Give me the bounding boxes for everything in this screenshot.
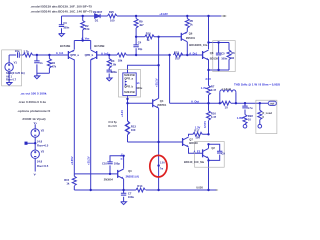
svg-text:R15: R15 <box>64 178 69 182</box>
svg-text:C11 5p: C11 5p <box>108 120 117 124</box>
svg-text:R10: R10 <box>146 32 151 36</box>
svg-text:R16: R16 <box>211 112 216 116</box>
resistor R13 vbe chain <box>126 121 130 135</box>
svg-text:Q7: Q7 <box>189 138 193 142</box>
wire input mid <box>9 54 68 56</box>
svg-text:A_In1: A_In1 <box>56 51 64 55</box>
svg-text:4.7u: 4.7u <box>247 106 253 110</box>
wire emitter res to out <box>208 95 210 148</box>
svg-text:100: 100 <box>195 136 200 140</box>
svg-text:2N5551: 2N5551 <box>157 103 167 107</box>
svg-text:+3.4V: +3.4V <box>120 110 124 117</box>
svg-text:R3: R3 <box>111 59 115 63</box>
svg-text:V2: V2 <box>41 128 45 132</box>
svg-text:.ac oct 100 5 100k: .ac oct 100 5 100k <box>20 91 46 95</box>
svg-text:Q3: Q3 <box>128 169 132 173</box>
wire VAS base <box>128 102 153 104</box>
transistor QPR_b LTP right <box>91 50 97 60</box>
svg-text:100: 100 <box>110 18 115 22</box>
svg-text:D1: D1 <box>95 18 99 22</box>
arrow bottom rail end <box>216 189 219 191</box>
wire VAS load chain <box>135 16 137 55</box>
svg-text:4k7: 4k7 <box>139 23 144 27</box>
svg-text:680u: 680u <box>111 70 117 74</box>
svg-text:47k: 47k <box>52 64 57 68</box>
svg-text:BD139DS_10a: BD139DS_10a <box>189 43 208 47</box>
svg-text:100n: 100n <box>221 57 227 61</box>
svg-text:V1: V1 <box>14 60 18 64</box>
svg-text:7m: 7m <box>160 169 163 171</box>
resistor R10 comp branch <box>145 35 154 39</box>
capacitor C2 input 10u <box>18 52 20 57</box>
svg-text:2N3904: 2N3904 <box>104 178 114 182</box>
svg-text:100n: 100n <box>63 25 69 29</box>
capacitor C5 <box>216 53 221 55</box>
wire rail decoupling stub <box>61 16 63 34</box>
svg-text:1.4V: 1.4V <box>201 86 207 90</box>
svg-text:+0.65V: +0.65V <box>70 156 74 165</box>
capacitor C3 rail decoupling <box>59 25 64 27</box>
svg-text:THD 1kHz @ 1 W / 8 Ohm = 0,002: THD 1kHz @ 1 W / 8 Ohm = 0,0029% <box>234 82 280 86</box>
resistor R4 47k <box>47 59 51 68</box>
svg-text:C7: C7 <box>128 191 132 195</box>
svg-text:QPR_b: QPR_b <box>124 85 133 89</box>
wire driver emitter <box>189 148 203 154</box>
svg-text:out: out <box>270 102 274 106</box>
ground rail decoupling <box>59 34 65 37</box>
wire q3 miller <box>110 156 124 174</box>
svg-text:R14: R14 <box>137 184 142 188</box>
ground bottom <box>121 202 127 205</box>
svg-text:1k: 1k <box>190 23 193 27</box>
wire LTP right collector <box>90 59 92 190</box>
svg-text:.FOUR 1k V(out): .FOUR 1k V(out) <box>22 117 46 121</box>
svg-text:Rser=0.5: Rser=0.5 <box>37 144 49 148</box>
svg-text:1n: 1n <box>39 61 42 65</box>
wire Q8 loop top <box>209 42 230 44</box>
svg-text:1.5A: 1.5A <box>160 161 165 164</box>
svg-text:x1: x1 <box>137 81 140 85</box>
svg-text:1N4007: 1N4007 <box>93 10 103 14</box>
wire VAS emitter <box>158 108 160 190</box>
svg-text:.model BD140 ako:BD140_16C_140: .model BD140 ako:BD140_16C_140 BF=75 <box>31 10 93 14</box>
svg-text:1k: 1k <box>147 38 150 42</box>
wire q3 emitter gnd leg <box>123 179 125 202</box>
svg-text:V-: V- <box>34 172 37 176</box>
terminal load <box>258 124 262 128</box>
svg-text:1.3V: 1.3V <box>195 125 201 129</box>
svg-text:1.8k: 1.8k <box>111 62 117 66</box>
transistor Q3 <box>118 169 124 179</box>
arrow rail end <box>221 15 225 17</box>
svg-text:Q2: Q2 <box>211 146 215 150</box>
svg-text:100u: 100u <box>128 195 134 199</box>
wire V1 leads <box>8 55 10 82</box>
diode D1 rail <box>95 14 101 18</box>
svg-text:0.57V: 0.57V <box>203 121 207 128</box>
capacitor C6 NFB 680u <box>107 70 112 72</box>
svg-text:Q8: Q8 <box>210 51 214 55</box>
voltage source V1 <box>5 63 13 71</box>
svg-text:C4: C4 <box>138 40 142 44</box>
resistor R20 10 out <box>221 101 230 105</box>
svg-text:1k: 1k <box>66 181 69 185</box>
svg-text:0.026: 0.026 <box>196 186 203 190</box>
svg-text:.tran 0 200m 0 0.1u: .tran 0 200m 0 0.1u <box>18 100 46 104</box>
svg-text:A_Out: A_Out <box>191 100 199 104</box>
svg-text:R22: R22 <box>248 114 253 118</box>
resistor R12 100 <box>173 53 182 57</box>
svg-text:R_Load: R_Load <box>262 111 272 115</box>
wire Q8 loop bottom <box>209 69 230 71</box>
wire Q8 loop right <box>228 43 230 71</box>
svg-text:Q4: Q4 <box>160 99 164 103</box>
resistor R16 0.47 lower <box>207 111 211 120</box>
wire supply column <box>26 124 35 171</box>
resistor R5 Q6 collector 1k <box>185 19 189 28</box>
resistor R25 rail <box>108 14 117 18</box>
svg-text:C3: C3 <box>63 21 67 25</box>
resistor R15 mirror <box>72 176 76 185</box>
resistor R8 18k NFB series <box>117 53 126 57</box>
wire mirror left leg <box>73 174 75 190</box>
svg-text:QPR_a: QPR_a <box>124 76 133 80</box>
wire comp branch y37 <box>136 36 181 38</box>
transistor Q7 driver <box>183 137 189 147</box>
blue rect vbe multiplier module <box>123 73 136 96</box>
group box output top <box>213 41 235 72</box>
resistor R3 NFB 1.8k <box>107 59 111 68</box>
ground input <box>34 76 40 79</box>
svg-text:R12: R12 <box>174 50 179 54</box>
svg-text:10: 10 <box>231 56 234 60</box>
red ellipse annotation <box>150 155 167 177</box>
svg-text:A_Vc: A_Vc <box>120 153 124 160</box>
svg-text:0.47: 0.47 <box>211 115 217 119</box>
group box output bottom <box>195 142 225 168</box>
wire vbe chain lower <box>127 96 129 143</box>
svg-text:100u: 100u <box>136 86 142 90</box>
svg-text:A_In2: A_In2 <box>101 51 109 55</box>
wire Q8 emitter <box>208 59 210 85</box>
svg-text:24.8: 24.8 <box>37 160 43 164</box>
wire q3 base <box>74 173 117 175</box>
svg-text:V+: V+ <box>34 121 38 125</box>
svg-text:BC546B: BC546B <box>60 44 70 48</box>
inductor L1 <box>220 90 236 92</box>
resistor R14 rail sense <box>136 188 145 192</box>
transistor Q2 output bottom <box>203 148 209 158</box>
resistor R7 0.47 emitter <box>207 86 211 95</box>
wire NFB mid <box>97 54 203 56</box>
transistor QPR_a LTP left <box>68 50 74 60</box>
svg-text:L1 2uH: L1 2uH <box>222 87 231 91</box>
svg-text:+25.1V: +25.1V <box>154 78 158 87</box>
svg-text:BD140_10C_Ma: BD140_10C_Ma <box>184 160 205 164</box>
svg-text:MJE15B: MJE15B <box>124 90 135 94</box>
svg-text:R13: R13 <box>131 124 136 128</box>
svg-text:100: 100 <box>175 56 180 60</box>
svg-text:10u: 10u <box>15 49 20 53</box>
voltage source V3 <box>31 150 39 158</box>
svg-text:10p: 10p <box>138 47 143 51</box>
capacitor C1 input shunt <box>34 61 39 63</box>
node flag square supply mid <box>25 142 28 145</box>
wire NFB shunt leg <box>108 55 110 78</box>
svg-text:BD139: BD139 <box>210 56 219 60</box>
resistor R22 zobel <box>243 115 247 124</box>
wire driver base feed <box>128 141 183 143</box>
svg-text:BD139: BD139 <box>189 141 198 145</box>
svg-text:2N5401: 2N5401 <box>186 36 196 40</box>
svg-text:C10: C10 <box>102 162 107 166</box>
wire vbe spreader top link <box>128 65 159 73</box>
svg-text:R6: R6 <box>231 51 235 55</box>
wire LTP left collector <box>73 59 75 173</box>
wire top rail V+ <box>62 15 222 17</box>
wire Q2 emitter <box>208 158 210 190</box>
resistor R17 100 driver <box>193 132 202 136</box>
capacitor C7 rail gnd <box>121 193 126 195</box>
wire Q2 collector <box>209 144 220 160</box>
svg-text:Rser 0.7: Rser 0.7 <box>6 78 17 82</box>
svg-text:Rser=0.5: Rser=0.5 <box>37 164 49 168</box>
out oval flag <box>268 101 276 105</box>
svg-text:10k: 10k <box>85 27 90 31</box>
svg-text:QPR_a: QPR_a <box>70 53 79 57</box>
capacitor C8 zobel <box>242 106 247 108</box>
capacitor C9 <box>217 151 222 153</box>
wire bottom rail <box>74 189 217 191</box>
svg-text:10: 10 <box>225 105 228 109</box>
resistor R6 <box>227 50 231 59</box>
svg-text:+44.8V: +44.8V <box>159 12 168 16</box>
voltage source V2 <box>31 129 39 137</box>
wire tail resistor stub <box>82 16 84 41</box>
ground NFB <box>106 78 112 81</box>
svg-text:R4: R4 <box>52 61 56 65</box>
wire L parallel <box>220 92 236 103</box>
svg-text:100: 100 <box>131 128 136 132</box>
svg-text:Ks=0.5: Ks=0.5 <box>108 124 117 128</box>
svg-text:.options plotwinsize=0: .options plotwinsize=0 <box>17 109 50 113</box>
svg-text:.model BD139 ako:BD139_16F_100: .model BD139 ako:BD139_16F_100 BF=75 <box>31 4 93 8</box>
wire input shunt cap branch <box>37 55 50 76</box>
svg-text:R5: R5 <box>190 19 194 23</box>
resistor R_Load <box>258 110 262 119</box>
wire zobel <box>244 103 246 124</box>
wire Q8 collector drop <box>208 16 210 49</box>
grey group boxes <box>2 41 277 168</box>
capacitor C4 comp <box>133 45 138 47</box>
svg-text:V3: V3 <box>41 150 45 154</box>
svg-text:A_E2: A_E2 <box>194 150 201 154</box>
capacitor C10 miller <box>107 162 112 164</box>
transistor Q4 VAS <box>153 98 159 108</box>
svg-text:QPR_b: QPR_b <box>85 53 94 57</box>
wire out line <box>170 55 269 103</box>
svg-text:R9: R9 <box>139 20 143 24</box>
svg-text:C5: C5 <box>221 52 225 56</box>
svg-text:A_Dr1: A_Dr1 <box>189 52 197 56</box>
svg-text:Q6: Q6 <box>189 32 193 36</box>
wire Q8 cap stub <box>218 43 220 71</box>
wire LTP emitter link <box>74 41 90 50</box>
svg-text:2.7k: 2.7k <box>24 50 30 54</box>
svg-text:24.8: 24.8 <box>37 139 43 143</box>
svg-text:R7: R7 <box>211 85 215 89</box>
svg-text:A_Vas: A_Vas <box>81 37 90 41</box>
svg-text:3.5V: 3.5V <box>205 77 211 81</box>
resistor R1 2.7k input <box>23 53 32 57</box>
svg-text:10: 10 <box>248 117 251 121</box>
wire Q6 chain <box>186 16 188 55</box>
group box vbe spreader <box>119 70 141 98</box>
transistor Q6 <box>181 32 187 42</box>
svg-text:0.47: 0.47 <box>211 88 217 92</box>
transistor Q8 output top BD139 <box>203 50 209 60</box>
svg-text:18k: 18k <box>118 58 123 62</box>
wire VAS collector <box>158 37 160 99</box>
svg-text:100p: 100p <box>114 162 120 166</box>
group box load <box>256 100 277 133</box>
svg-text:1.3W: 1.3W <box>237 116 244 120</box>
wire driver collector <box>189 134 209 136</box>
wire q3 collector <box>123 156 125 169</box>
terminal zobel <box>243 124 247 128</box>
resistor R2 tail 10k <box>81 21 85 30</box>
resistor R9 VAS load <box>134 19 138 28</box>
svg-text:C9: C9 <box>221 151 225 155</box>
svg-text:+25.2V: +25.2V <box>87 156 91 165</box>
svg-text:BC546B: BC546B <box>94 44 104 48</box>
ground V1 <box>6 83 12 86</box>
wire load branch <box>259 103 261 124</box>
wire input shunt res branch <box>48 55 50 73</box>
group box input source <box>2 50 22 86</box>
svg-text:2N5551 (A): 2N5551 (A) <box>126 175 140 179</box>
svg-text:R25: R25 <box>109 10 114 14</box>
